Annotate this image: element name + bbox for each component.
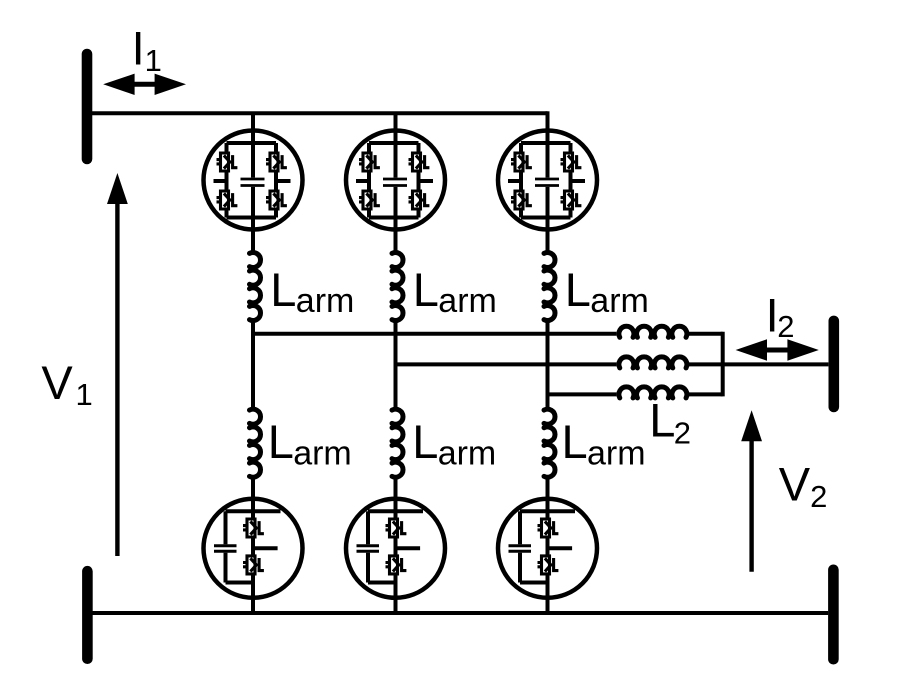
- inductor Larm leg1 upper: [250, 253, 261, 321]
- svg-text:L: L: [562, 415, 588, 468]
- arrow I1 (double-headed): [103, 74, 186, 95]
- wire phase line A: [253, 332, 616, 336]
- arrow I2 (double-headed): [736, 339, 819, 360]
- submodule SM1 (full-bridge, leg1 upper): [204, 129, 303, 231]
- svg-text:arm: arm: [296, 282, 355, 320]
- svg-text:2: 2: [810, 479, 827, 514]
- wire leg3 coil-to-circle: [546, 479, 550, 500]
- submodule SM2 (full-bridge, leg2 upper): [346, 129, 445, 231]
- wire leg1 coil-to-lineA: [251, 322, 255, 336]
- wire leg2 coil-to-lineB: [394, 322, 398, 366]
- svg-text:2: 2: [674, 415, 691, 450]
- wire phase A to connector: [688, 332, 722, 336]
- wire leg3 circle-to-coil: [546, 229, 550, 251]
- wire leg2 coil-to-circle: [394, 479, 398, 500]
- wire leg2 circle-to-bottom: [394, 597, 398, 613]
- wire phase C to connector: [688, 392, 722, 396]
- wire leg2 top stub: [394, 113, 398, 132]
- svg-text:2: 2: [777, 309, 794, 344]
- wire bottom DC line: [87, 611, 828, 615]
- bus bar left top: [82, 54, 93, 159]
- inductor Larm leg3 lower: [544, 409, 555, 477]
- svg-text:L: L: [565, 263, 591, 316]
- wire phase line C: [548, 392, 617, 396]
- svg-text:arm: arm: [293, 435, 352, 473]
- wire connector vertical: [721, 332, 725, 397]
- svg-text:I: I: [132, 22, 145, 75]
- inductor Larm leg1 lower: [250, 409, 261, 477]
- inductor L2 phase A: [619, 326, 687, 337]
- svg-text:L: L: [268, 415, 294, 468]
- submodule SM5 (half-bridge, leg2 lower): [346, 497, 445, 599]
- submodule SM3 (full-bridge, leg3 upper): [498, 129, 597, 231]
- svg-text:arm: arm: [587, 435, 646, 473]
- svg-text:1: 1: [145, 43, 162, 78]
- wire leg3 top stub: [546, 111, 550, 132]
- inductor L2 phase B: [619, 357, 687, 368]
- submodule SM6 (half-bridge, leg3 lower): [498, 497, 597, 599]
- wire leg3 lineC-to-coil: [546, 394, 550, 408]
- svg-text:arm: arm: [438, 435, 497, 473]
- wire leg1 lineA-to-coil: [251, 334, 255, 408]
- wire AC output line: [723, 362, 829, 366]
- svg-text:arm: arm: [590, 282, 649, 320]
- wire phase line B: [396, 362, 617, 366]
- bus bar right top: [828, 321, 839, 407]
- arrow V1 (up): [107, 173, 128, 556]
- wire leg1 circle-to-bottom: [251, 597, 255, 613]
- wire phase B to connector: [688, 362, 722, 366]
- wire leg2 circle-to-coil: [394, 229, 398, 251]
- wire leg3 coil-to-lineC: [546, 322, 550, 396]
- svg-text:L: L: [412, 415, 438, 468]
- wire leg1 coil-to-circle: [251, 479, 255, 500]
- svg-text:L: L: [270, 263, 296, 316]
- inductor Larm leg3 upper: [544, 253, 555, 321]
- wire leg2 lineB-to-coil: [394, 364, 398, 408]
- inductor L2 phase C: [619, 387, 687, 398]
- inductor Larm leg2 lower: [392, 409, 403, 477]
- wire top DC line: [87, 111, 548, 115]
- svg-text:V: V: [41, 356, 73, 409]
- wire leg3 circle-to-bottom: [546, 597, 550, 613]
- bus bar right bottom: [828, 570, 839, 659]
- submodule SM4 (half-bridge, leg1 lower): [204, 497, 303, 599]
- svg-text:L: L: [413, 263, 439, 316]
- svg-text:L: L: [649, 394, 675, 447]
- arrow V2 (up): [741, 410, 762, 571]
- bus bar left bottom: [82, 571, 93, 659]
- svg-text:1: 1: [76, 377, 93, 412]
- wire leg1 circle-to-coil: [251, 229, 255, 251]
- wire leg1 top stub: [251, 113, 255, 132]
- inductor Larm leg2 upper: [392, 253, 403, 321]
- svg-text:arm: arm: [438, 282, 497, 320]
- svg-text:V: V: [779, 458, 811, 511]
